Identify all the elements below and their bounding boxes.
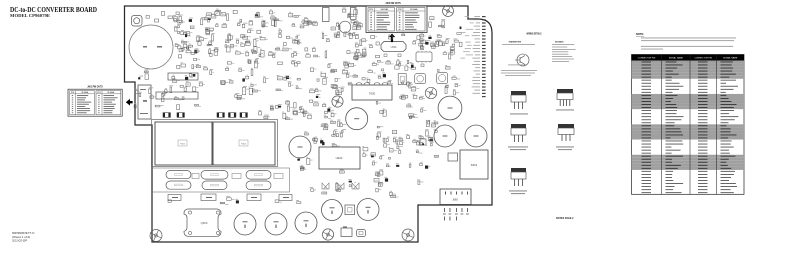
diodes list lines <box>552 44 576 62</box>
mounting hole MH2 <box>332 96 343 107</box>
svg-text:T600: T600 <box>369 92 376 96</box>
mounting hole MH3 <box>425 87 436 98</box>
inductors L601-L603 (stadium windings) <box>166 171 271 190</box>
heatsink outline Q660 <box>184 209 221 236</box>
svg-text:TRANSISTORS: TRANSISTORS <box>509 40 522 43</box>
svg-text:PIN: PIN <box>398 9 402 11</box>
note paragraph 2 <box>641 46 733 50</box>
table: connector pin assignments <box>632 55 745 195</box>
card edge contact fingers <box>482 16 486 97</box>
svg-text:PIN: PIN <box>71 92 75 94</box>
capacitor C660 <box>234 213 256 235</box>
svg-text:3/21/02-DP: 3/21/02-DP <box>12 239 27 243</box>
svg-text:SIGNAL: SIGNAL <box>107 91 115 94</box>
capacitor C624 <box>465 125 487 147</box>
resistor R640 <box>420 139 426 145</box>
transistor package Q69/Q70 <box>511 168 526 186</box>
connector J604 (top edge) <box>351 8 357 20</box>
connector J603 (top edge) <box>323 8 330 22</box>
component reference labels (tiny) <box>134 8 461 205</box>
svg-text:NOTES PAGE 2: NOTES PAGE 2 <box>556 217 574 220</box>
capacitor C600 (large toroid top-left) <box>129 25 173 69</box>
pad with mounting hole top-left <box>132 16 143 27</box>
pin 1 arrow marker (left) <box>126 99 133 106</box>
diodes D660-D662 <box>322 183 359 189</box>
transistor package Q67/Q68 <box>511 124 526 142</box>
transformer T601 <box>155 122 212 165</box>
capacitor C664 <box>357 199 379 221</box>
card edge pin labels <box>461 16 481 94</box>
transformer T600 (top, under arrow) <box>352 83 392 101</box>
transistors list line <box>502 43 535 46</box>
svg-text:SIGNAL NAME: SIGNAL NAME <box>669 57 684 60</box>
small discrete components (resistors/capacitors/ICs) <box>134 9 462 204</box>
resistor pack R610 <box>398 74 406 85</box>
svg-text:SIGNAL: SIGNAL <box>380 8 389 11</box>
capacitor C661 <box>265 213 287 235</box>
mounting hole MH6 <box>402 229 414 241</box>
table: J400 PIN OUTS box <box>366 6 427 33</box>
svg-text:SIGNAL: SIGNAL <box>410 8 419 11</box>
relay K601 <box>460 150 488 179</box>
heatsink mount holes <box>188 211 219 235</box>
capacitor C662 <box>295 212 317 234</box>
inductor region outline <box>153 168 290 192</box>
capacitor C665 <box>345 205 355 215</box>
diode package D71/D72 <box>558 124 574 141</box>
svg-text:Q660: Q660 <box>201 221 208 225</box>
connector J660 wire stubs <box>443 208 469 221</box>
capacitor C620 <box>289 136 311 158</box>
svg-text:T601: T601 <box>180 144 186 146</box>
svg-text:U620: U620 <box>336 156 343 160</box>
capacitor C663 <box>322 200 343 221</box>
transistor package Q65/Q66 <box>511 91 526 109</box>
svg-text:J660: J660 <box>452 198 458 202</box>
svg-text:K601: K601 <box>471 163 478 167</box>
svg-text:CONNECTOR PIN: CONNECTOR PIN <box>694 58 712 60</box>
capacitor C610 (small) <box>339 21 351 33</box>
svg-text:PIN: PIN <box>369 9 373 11</box>
rectifier BR660 <box>341 227 352 237</box>
svg-text:CONNECTOR PIN: CONNECTOR PIN <box>638 58 656 60</box>
board outline <box>125 6 493 242</box>
diode package D60-D65 <box>557 89 573 106</box>
svg-text:SIGNAL: SIGNAL <box>81 91 89 94</box>
capacitor C622 <box>438 96 462 120</box>
resistors R660-R663 row <box>168 194 292 201</box>
transformer area outline <box>152 120 278 167</box>
svg-text:U600: U600 <box>391 46 397 49</box>
capacitor C623 <box>434 125 456 147</box>
connector J601 (left edge) <box>138 85 151 119</box>
resistor block R6xx <box>168 73 198 80</box>
connector J660 (bottom edge) <box>440 189 471 205</box>
note paragraph 1 <box>641 38 736 42</box>
svg-text:T602: T602 <box>241 144 247 146</box>
transistor symbol Q60 <box>508 54 529 66</box>
capacitor C612 (square w/ circle) <box>437 73 448 84</box>
table: J601 PIN OUTS box <box>68 89 122 116</box>
capacitor C611 (square w/ circle) <box>415 74 426 84</box>
capacitor C630 <box>448 153 458 161</box>
hybrid module U600 (under arrow) <box>381 42 406 57</box>
small parts near C600 <box>146 12 179 23</box>
pin 1 arrow marker (up) <box>389 34 395 43</box>
svg-text:SIGNAL NAME: SIGNAL NAME <box>723 57 738 60</box>
svg-text:DIODES: DIODES <box>555 41 564 43</box>
regulator module U620 <box>319 147 360 169</box>
IC U601 <box>416 51 432 63</box>
svg-text:WIRING DETAILS: WIRING DETAILS <box>527 32 542 36</box>
svg-text:PIN: PIN <box>97 92 101 94</box>
capacitor C666 <box>357 230 366 237</box>
transformer T602 <box>213 122 275 165</box>
mounting hole MH1 <box>443 6 454 17</box>
mounting hole MH5 <box>322 229 333 240</box>
svg-text:NOTE:: NOTE: <box>636 32 644 36</box>
small label plates between inductors <box>192 174 283 179</box>
mounting hole MH4 <box>150 230 162 242</box>
svg-text:J601 PIN OUTS: J601 PIN OUTS <box>87 86 103 88</box>
resistor block R6yy <box>156 92 198 99</box>
capacitor C621 <box>346 108 368 130</box>
transistor notes lines <box>501 70 537 76</box>
svg-text:MODEL CP96079E: MODEL CP96079E <box>10 13 50 18</box>
svg-text:J400 PIN OUTS: J400 PIN OUTS <box>385 2 401 5</box>
fuse row F601-F605 <box>163 113 247 118</box>
